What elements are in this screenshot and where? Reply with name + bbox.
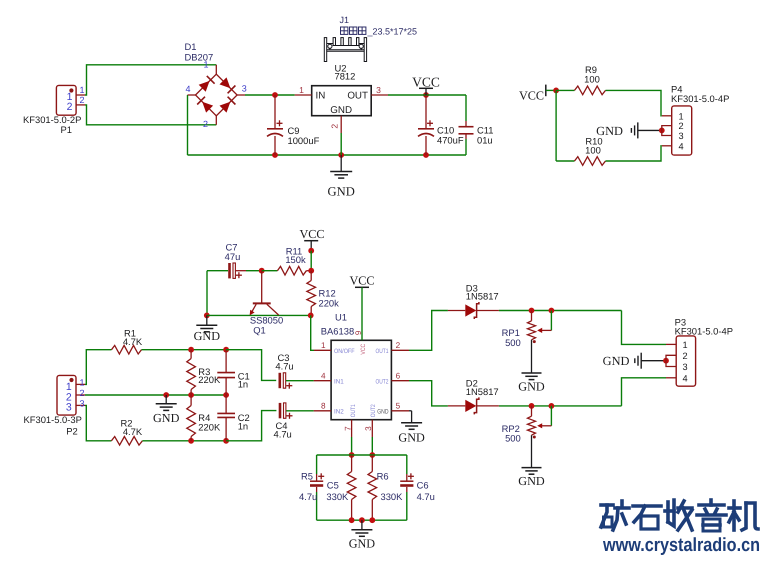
potentiometer RP2 [502, 406, 552, 444]
node RP2 wiper [549, 403, 555, 409]
svg-text:OUT2: OUT2 [376, 379, 389, 386]
connector P2 [24, 375, 86, 436]
capacitor C6 [400, 455, 435, 520]
resistor R5 [347, 455, 356, 520]
node RP1 wiper [549, 308, 555, 314]
node C7/R11/base [259, 268, 265, 274]
ground under P2 rail [153, 395, 180, 425]
capacitor C5 [299, 455, 349, 520]
bridge rectifier D1 [185, 41, 247, 129]
resistor R11 [262, 245, 312, 275]
power port VCC (U1) [349, 274, 374, 341]
svg-text:GND: GND [328, 185, 355, 199]
svg-text:2: 2 [203, 119, 208, 129]
svg-text:_23.5*17*25: _23.5*17*25 [367, 27, 418, 37]
svg-text:4.7u: 4.7u [275, 361, 293, 372]
node R5 bottom [349, 517, 355, 523]
svg-text:OUT1: OUT1 [376, 348, 389, 355]
wire D3 rail to P3 pin1 [622, 311, 667, 345]
svg-text:KF301-5.0-2P: KF301-5.0-2P [23, 114, 81, 125]
node R1/R3 [188, 347, 194, 353]
bottom rail [317, 519, 407, 521]
resistor R2 [111, 418, 226, 446]
svg-text:500: 500 [505, 337, 521, 348]
node U2 GND bottom [338, 152, 344, 158]
svg-text:GND: GND [518, 474, 545, 488]
diode D1d (bottom-right) [220, 102, 231, 113]
node gnd tap [163, 392, 169, 398]
svg-text:IN: IN [316, 91, 326, 102]
node C10 top / VCC [423, 92, 429, 98]
svg-text:VCC: VCC [519, 88, 544, 102]
svg-text:1N5817: 1N5817 [466, 386, 499, 397]
resistor R10 [556, 135, 672, 165]
svg-text:8: 8 [321, 402, 326, 411]
svg-text:220K: 220K [198, 421, 221, 432]
svg-text:GND: GND [398, 431, 425, 445]
svg-text:ON/OFF: ON/OFF [334, 348, 355, 355]
ground bottom network [349, 520, 376, 550]
svg-text:4.7u: 4.7u [274, 429, 292, 440]
svg-text:500: 500 [505, 433, 521, 444]
svg-text:GND: GND [330, 105, 352, 116]
top rail bottom network [317, 454, 407, 456]
capacitor C11 [459, 95, 494, 155]
connector P3 [666, 317, 733, 387]
wire U2 GND down [340, 133, 342, 155]
diode D3 [448, 282, 499, 319]
svg-text:C6: C6 [417, 479, 429, 490]
emitter rail [207, 314, 311, 316]
ground under U2 [328, 155, 355, 199]
node R2/R4 [188, 438, 194, 444]
svg-text:C5: C5 [327, 479, 339, 490]
power port VCC (R9) [519, 85, 556, 103]
svg-text:J1: J1 [340, 15, 350, 25]
connector P1 [23, 85, 85, 135]
regulator U2 7812 [295, 63, 388, 134]
svg-text:4: 4 [679, 141, 684, 151]
wire U1 pin3 down [371, 437, 373, 455]
ground under C7 [194, 315, 221, 343]
node emitter/gnd [204, 313, 210, 319]
svg-text:KF301-5.0-4P: KF301-5.0-4P [671, 93, 729, 104]
node VCC R12 [308, 248, 314, 254]
svg-text:KF301-5.0-4P: KF301-5.0-4P [675, 326, 733, 337]
svg-text:3: 3 [242, 83, 247, 93]
svg-text:330K: 330K [381, 491, 404, 502]
wire OUT2 to D2 [409, 381, 448, 406]
node C9 bottom [272, 152, 278, 158]
svg-text:2: 2 [679, 121, 684, 131]
svg-text:2: 2 [80, 95, 85, 105]
svg-text:OUT2: OUT2 [370, 404, 377, 417]
svg-text:OUT: OUT [347, 91, 368, 102]
node R12 bottom [308, 313, 314, 319]
ground port (P4) [596, 122, 662, 138]
svg-text:4: 4 [683, 374, 688, 384]
svg-text:OUT1: OUT1 [350, 404, 357, 417]
svg-text:1n: 1n [238, 379, 248, 390]
resistor R4 [187, 395, 221, 441]
node pin7 [349, 452, 355, 458]
svg-text:3: 3 [376, 85, 381, 95]
svg-text:1: 1 [299, 85, 304, 95]
capacitor C1 [217, 350, 249, 395]
svg-text:GND: GND [349, 536, 376, 550]
IC U1 BA6138 [314, 311, 409, 437]
node R6 bottom [369, 517, 375, 523]
svg-text:2: 2 [396, 341, 401, 350]
svg-text:R5: R5 [301, 471, 313, 482]
wire rail to C3 [226, 350, 276, 381]
svg-text:GND: GND [377, 409, 389, 416]
power port VCC (R12) [299, 227, 324, 251]
diode D2 [448, 378, 499, 415]
ground port (P3) [603, 353, 666, 369]
node gnd tap bottom [359, 517, 365, 523]
diode D1a (top-left) [199, 81, 210, 92]
svg-text:330K: 330K [326, 491, 349, 502]
svg-text:GND: GND [194, 329, 221, 343]
svg-text:7812: 7812 [335, 70, 356, 81]
svg-text:220k: 220k [319, 297, 340, 308]
svg-text:3: 3 [364, 426, 373, 431]
svg-text:4.7K: 4.7K [123, 336, 143, 347]
capacitor C3 [275, 352, 313, 389]
svg-text:2: 2 [67, 101, 73, 113]
svg-text:Q1: Q1 [253, 324, 266, 335]
svg-text:2: 2 [683, 351, 688, 361]
svg-text:150k: 150k [285, 254, 306, 265]
node R3/R4 [188, 392, 194, 398]
resistor R1 [112, 328, 227, 355]
svg-text:KF301-5.0-3P: KF301-5.0-3P [24, 414, 82, 425]
svg-text:GND: GND [596, 124, 623, 138]
wire P2 pin2 mid rail [85, 394, 226, 396]
svg-text:1n: 1n [238, 420, 248, 431]
svg-text:4: 4 [321, 372, 326, 381]
node P3 gnd [663, 358, 669, 364]
node C9 top [272, 92, 278, 98]
RP2 to ground [531, 435, 533, 467]
svg-text:1: 1 [80, 377, 85, 387]
svg-text:IN1: IN1 [334, 379, 344, 386]
resistor R3 [187, 350, 221, 395]
wire C7 left down [206, 271, 208, 316]
svg-text:VCC: VCC [412, 74, 440, 89]
svg-text:1: 1 [321, 341, 326, 350]
svg-text:GND: GND [153, 411, 180, 425]
svg-text:100: 100 [585, 144, 601, 155]
svg-text:BA6138: BA6138 [321, 325, 354, 336]
ground U1 [398, 423, 425, 445]
svg-text:4: 4 [185, 84, 190, 94]
node R11/R12 [308, 268, 314, 274]
connector P4 [662, 84, 730, 156]
svg-text:GND: GND [518, 379, 545, 393]
svg-text:P2: P2 [66, 426, 77, 437]
svg-text:2: 2 [330, 124, 340, 129]
svg-text:1: 1 [683, 340, 688, 350]
svg-text:3: 3 [80, 398, 85, 408]
svg-text:DB207: DB207 [185, 51, 214, 62]
watermark logo [601, 500, 760, 556]
wire U2 OUT to VCC rail [388, 94, 466, 96]
svg-text:01u: 01u [477, 135, 493, 146]
node RP1 top [529, 308, 535, 314]
wire P2 pin3 down to R2 [85, 405, 111, 440]
node C2 bottom [223, 438, 229, 444]
svg-text:3: 3 [66, 402, 72, 414]
svg-text:470uF: 470uF [437, 135, 464, 146]
svg-text:4.7u: 4.7u [299, 491, 317, 502]
capacitor C7 [207, 242, 262, 279]
wire OUT1 to D3 [409, 311, 448, 351]
svg-text:2: 2 [80, 388, 85, 398]
svg-text:100: 100 [584, 73, 600, 84]
resistor R9 [556, 64, 672, 116]
svg-text:3: 3 [683, 362, 688, 372]
svg-text:1000uF: 1000uF [288, 135, 320, 146]
node P4 gnd [659, 127, 665, 133]
svg-text:GND: GND [603, 354, 630, 368]
svg-text:7: 7 [343, 426, 352, 431]
svg-text:IN2: IN2 [334, 409, 344, 416]
capacitor C4 [274, 403, 314, 440]
svg-text:220K: 220K [198, 374, 221, 385]
wire U1 pin7 down [351, 437, 353, 455]
svg-text:U1: U1 [335, 311, 347, 322]
svg-text:1N5817: 1N5817 [466, 291, 499, 302]
diode D1c (bottom-left) [202, 102, 213, 113]
svg-text:4.7K: 4.7K [123, 426, 143, 437]
potentiometer RP1 [502, 311, 552, 348]
ground RP1 [518, 373, 545, 393]
wire VCC down to R10 [555, 90, 557, 161]
wire P2 pin1 up to R1 [85, 350, 112, 385]
node C1 top [223, 347, 229, 353]
node C10 bottom [423, 152, 429, 158]
resistor R6 [368, 455, 403, 520]
node C1/C2 [223, 392, 229, 398]
wire P1 pin2 to bridge bottom [85, 105, 216, 125]
bottom rail [188, 154, 467, 156]
resistor R12 [307, 271, 339, 316]
wire bridge output to U2 IN [245, 94, 295, 96]
svg-text:4.7u: 4.7u [417, 491, 435, 502]
diode D1b (top-right) [220, 77, 231, 88]
wire P1 pin1 to bridge top [85, 65, 216, 95]
svg-text:3: 3 [679, 131, 684, 141]
U1 GND pin wire [409, 410, 412, 412]
capacitor C2 [217, 395, 249, 441]
svg-text:VCC: VCC [360, 343, 367, 354]
capacitor C9 [267, 95, 320, 155]
node VCC/R9 [553, 88, 559, 94]
svg-text:1: 1 [80, 85, 85, 95]
svg-text:6: 6 [396, 372, 401, 381]
heatsink J1 [324, 15, 417, 62]
wire bottom rail to C4 [226, 411, 276, 441]
node pin3 [369, 452, 375, 458]
power port VCC (top rail) [412, 74, 440, 95]
svg-text:47u: 47u [225, 251, 241, 262]
svg-text:VCC: VCC [299, 227, 324, 241]
ground RP2 [518, 468, 545, 488]
capacitor C10 [418, 95, 464, 155]
svg-text:1: 1 [679, 111, 684, 121]
wire bridge left corner down to bottom rail [187, 95, 189, 155]
transistor Q1 SS8050 [250, 271, 283, 336]
wire to U1 ON/OFF [311, 315, 314, 350]
svg-text:5: 5 [396, 402, 401, 411]
RP1 to ground [531, 340, 533, 373]
wire D2 rail to P3 pin4 [622, 378, 667, 406]
node RP2 top [529, 403, 535, 409]
svg-text:R6: R6 [377, 471, 389, 482]
svg-text:P1: P1 [61, 124, 72, 135]
svg-text:VCC: VCC [349, 274, 374, 288]
svg-text:www.crystalradio.cn: www.crystalradio.cn [602, 535, 760, 556]
